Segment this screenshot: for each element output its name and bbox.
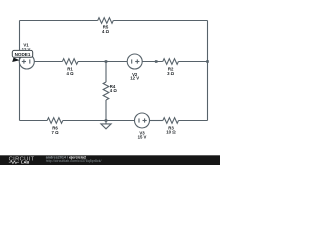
svg-text:NODE1: NODE1 [15, 52, 31, 57]
svg-text:10 Ω: 10 Ω [166, 130, 176, 135]
svg-text:15 V: 15 V [138, 135, 147, 140]
svg-text:4 Ω: 4 Ω [102, 29, 110, 34]
svg-text:7 Ω: 7 Ω [51, 130, 59, 135]
svg-text:12 V: 12 V [130, 76, 139, 81]
svg-text:LAB: LAB [21, 160, 29, 165]
svg-text:3 Ω: 3 Ω [167, 71, 175, 76]
svg-text:4 Ω: 4 Ω [110, 88, 118, 93]
svg-text:http://circuitlab.com/c4376q5p: http://circuitlab.com/c4376q5pr8ck/ [46, 159, 102, 163]
svg-text:4 Ω: 4 Ω [66, 71, 74, 76]
